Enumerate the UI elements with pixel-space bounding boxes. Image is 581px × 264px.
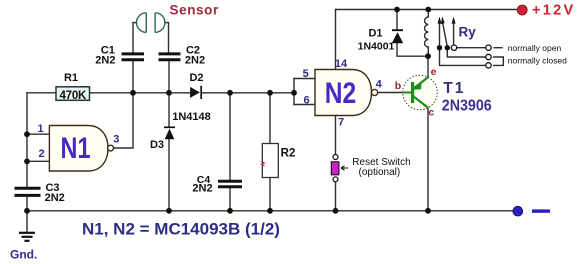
svg-text:Gnd.: Gnd. (10, 248, 37, 262)
svg-text:D3: D3 (150, 139, 164, 151)
svg-text:T1: T1 (443, 80, 465, 97)
svg-text:Ry: Ry (459, 25, 477, 40)
svg-text:1: 1 (37, 123, 43, 135)
svg-text:2N2: 2N2 (95, 55, 115, 67)
svg-text:7: 7 (338, 117, 344, 129)
svg-text:b: b (395, 80, 401, 92)
svg-text:2N2: 2N2 (45, 192, 65, 204)
svg-text:3: 3 (113, 134, 119, 146)
svg-text:R2: R2 (281, 148, 296, 160)
svg-text:normally closed: normally closed (508, 55, 567, 65)
svg-text:N1: N1 (61, 131, 91, 164)
svg-text:D1: D1 (368, 28, 382, 40)
svg-text:6: 6 (304, 95, 310, 107)
svg-text:1N4001: 1N4001 (358, 40, 395, 52)
svg-text:470K: 470K (59, 90, 87, 102)
svg-text:4: 4 (376, 78, 383, 90)
svg-text:D2: D2 (189, 72, 203, 84)
svg-text:2N2: 2N2 (192, 182, 212, 194)
svg-text:5: 5 (303, 68, 309, 80)
svg-text:14: 14 (335, 58, 348, 70)
svg-text:e: e (431, 66, 437, 78)
svg-text:N1, N2 = MC14093B (1/2): N1, N2 = MC14093B (1/2) (82, 219, 280, 238)
svg-text:Sensor: Sensor (170, 3, 220, 18)
svg-text:+12V: +12V (532, 3, 575, 19)
svg-text:normally open: normally open (508, 43, 562, 53)
svg-text:2: 2 (38, 148, 44, 160)
svg-text:N2: N2 (325, 76, 356, 110)
svg-text:c: c (428, 107, 434, 119)
svg-text:R1: R1 (64, 72, 78, 84)
svg-text:1N4148: 1N4148 (172, 111, 211, 123)
svg-text:2N3906: 2N3906 (442, 98, 492, 115)
svg-text:(optional): (optional) (359, 167, 401, 178)
svg-text:2N2: 2N2 (185, 55, 205, 67)
